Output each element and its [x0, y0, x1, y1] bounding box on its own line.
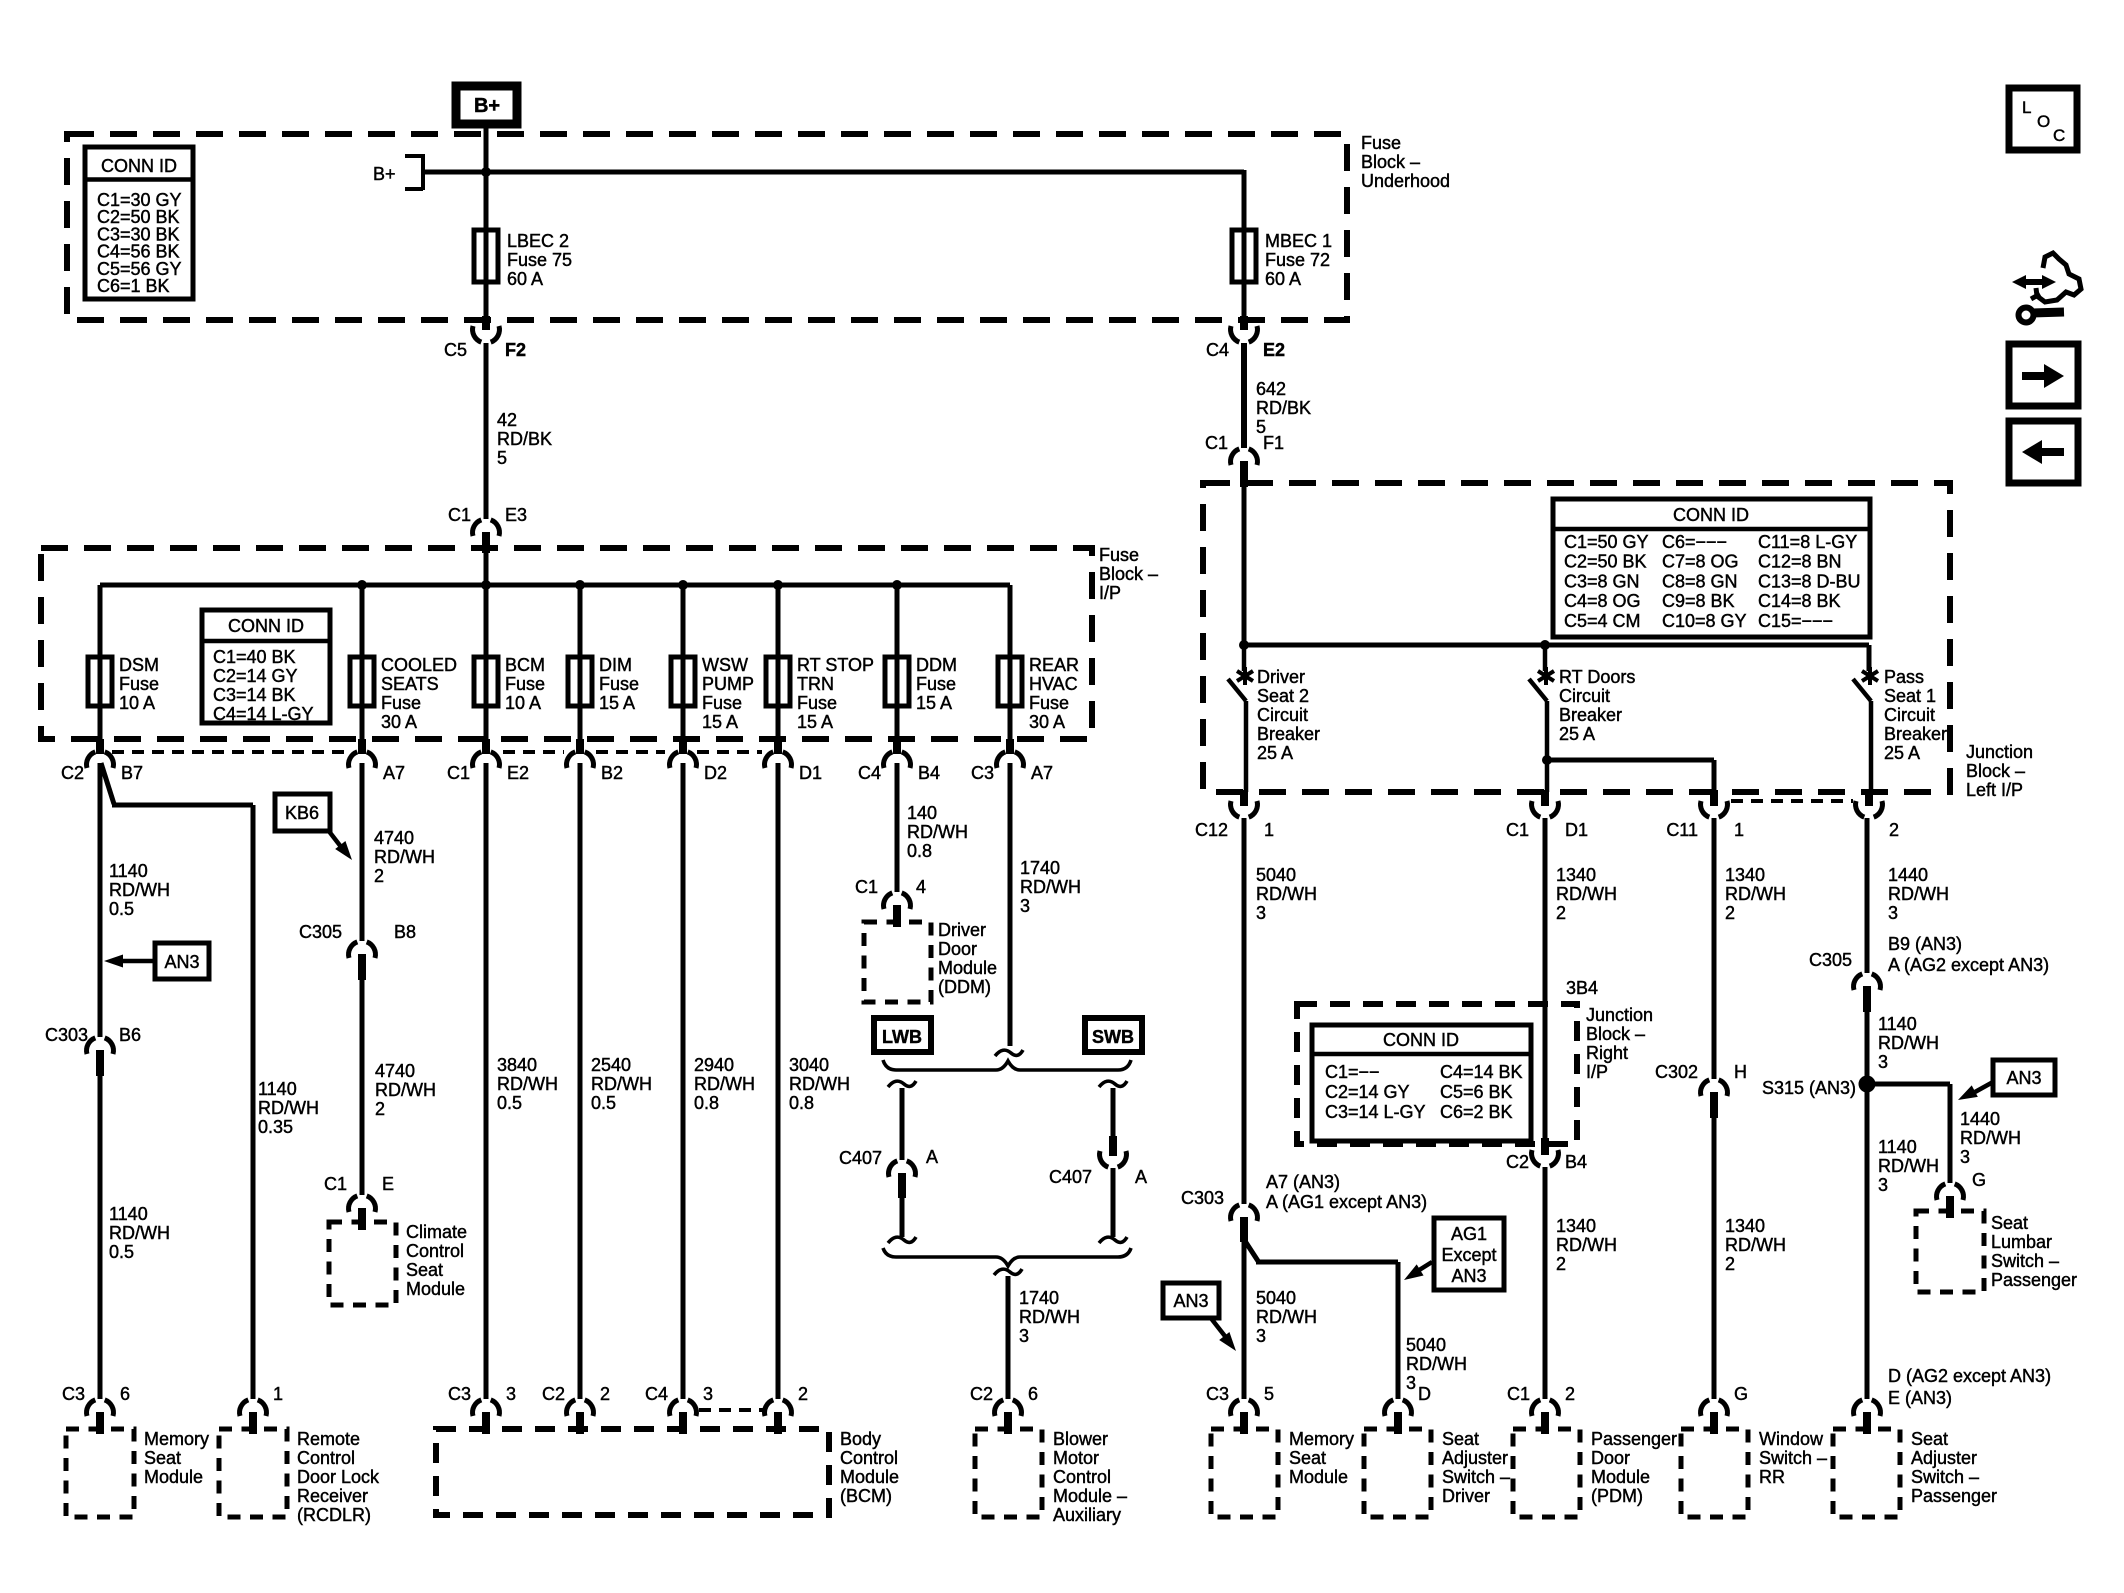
svg-text:D: D — [1418, 1384, 1431, 1404]
svg-text:RD/WH: RD/WH — [375, 1080, 436, 1100]
wire 5040 RD/WH 3 (C12 down) — [1244, 818, 1317, 1204]
circuit breaker Driver Seat 2 25 A — [1228, 645, 1320, 792]
connector C4 / E2 — [1206, 316, 1285, 360]
svg-text:MBEC 1: MBEC 1 — [1265, 231, 1332, 251]
svg-text:CONN ID: CONN ID — [101, 156, 177, 176]
svg-text:F1: F1 — [1263, 433, 1284, 453]
Seat Lumbar Switch - Passenger box — [1916, 1211, 2077, 1292]
wire fuse WSW PUMP to block edge — [681, 706, 686, 740]
svg-text:5040: 5040 — [1406, 1335, 1446, 1355]
fuse RT STOP TRN — [766, 655, 874, 732]
svg-text:Block –: Block – — [1586, 1024, 1645, 1044]
svg-text:Seat: Seat — [1442, 1429, 1479, 1449]
svg-text:D1: D1 — [799, 763, 822, 783]
label 3B4 — [1566, 978, 1598, 998]
wire 2540 RD/WH to BCM — [580, 763, 652, 1399]
svg-text:C303: C303 — [45, 1025, 88, 1045]
node AN3 reference (near C303) — [1163, 1283, 1236, 1351]
svg-text:C2: C2 — [1506, 1152, 1529, 1172]
next-page arrow box — [2009, 344, 2078, 406]
svg-text:3: 3 — [1256, 903, 1266, 923]
svg-text:Adjuster: Adjuster — [1911, 1448, 1977, 1468]
svg-text:1140: 1140 — [109, 1204, 148, 1224]
connector C303 / A7-A (right) — [1181, 1172, 1427, 1242]
svg-text:Door: Door — [938, 939, 977, 959]
component location icon (arrow, outline, wrench) — [2012, 253, 2081, 323]
svg-text:RD/WH: RD/WH — [1256, 1307, 1317, 1327]
CONN ID table (Fuse Block - I/P) — [202, 610, 330, 724]
fuse MBEC 1 Fuse 72 60 A — [1232, 228, 1332, 289]
connector G (Seat Lumbar Switch) — [1937, 1170, 1986, 1218]
splice S315 (AN3) — [1762, 1076, 1876, 1099]
wire 1740 RD/WH 3 (REAR HVAC down) — [1010, 763, 1081, 1046]
wire 1340 RD/WH 2 (C302 to Window Switch RR) — [1714, 1117, 1786, 1399]
svg-text:Seat: Seat — [406, 1260, 443, 1280]
connector C2 / B4 (JB Right exit) — [1506, 1138, 1587, 1172]
svg-text:Circuit: Circuit — [1884, 705, 1935, 725]
svg-text:RD/BK: RD/BK — [1256, 398, 1311, 418]
svg-text:C3: C3 — [62, 1384, 85, 1404]
svg-text:4740: 4740 — [375, 1061, 415, 1081]
svg-text:3040: 3040 — [789, 1055, 829, 1075]
fuse BCM — [474, 655, 545, 713]
previous-page arrow box — [2009, 421, 2078, 483]
svg-text:C4: C4 — [858, 763, 881, 783]
wire 1340 RD/WH 2 (to PDM) — [1545, 1167, 1617, 1399]
connector C3 / 6 (Memory Seat Module) — [62, 1384, 130, 1434]
svg-text:3: 3 — [1406, 1373, 1416, 1393]
svg-text:C5=6 BK: C5=6 BK — [1440, 1082, 1513, 1102]
svg-text:Module: Module — [406, 1279, 465, 1299]
Junction Block - Right I/P dashed box — [1297, 1004, 1577, 1144]
CONN ID table (Junction Block - Right I/P) — [1312, 1025, 1531, 1141]
svg-text:C4=14 BK: C4=14 BK — [1440, 1062, 1523, 1082]
svg-text:1340: 1340 — [1556, 865, 1596, 885]
svg-text:B+: B+ — [474, 95, 500, 117]
svg-text:2540: 2540 — [591, 1055, 631, 1075]
LOC navigation box — [2009, 88, 2077, 150]
svg-text:1340: 1340 — [1725, 1216, 1765, 1236]
wire branch to Seat Adjuster Switch - Driver — [1245, 1241, 1467, 1399]
wire 642 RD/BK 5 — [1244, 343, 1311, 448]
svg-text:RD/WH: RD/WH — [258, 1098, 319, 1118]
svg-text:10 A: 10 A — [119, 693, 155, 713]
svg-text:0.5: 0.5 — [591, 1093, 616, 1113]
svg-text:C2=14 GY: C2=14 GY — [1325, 1082, 1410, 1102]
connector C3 / 5 (Memory Seat Module (right)) — [1206, 1384, 1274, 1434]
svg-text:RD/WH: RD/WH — [1725, 884, 1786, 904]
Junction Block - Left I/P dashed box — [1203, 483, 1950, 792]
svg-text:Fuse: Fuse — [797, 693, 837, 713]
svg-text:15 A: 15 A — [916, 693, 952, 713]
svg-text:RD/WH: RD/WH — [1406, 1354, 1467, 1374]
svg-text:REAR: REAR — [1029, 655, 1079, 675]
wire bus tap to fuse REAR HVAC — [1008, 585, 1013, 657]
svg-text:C5=4 CM: C5=4 CM — [1564, 611, 1641, 631]
svg-text:C1: C1 — [1205, 433, 1228, 453]
fuse COOLED SEATS — [350, 655, 457, 732]
svg-text:1740: 1740 — [1019, 1288, 1059, 1308]
svg-text:PUMP: PUMP — [702, 674, 754, 694]
svg-text:5: 5 — [1264, 1384, 1274, 1404]
connector C2 / B7 (I/P block) — [61, 739, 143, 783]
svg-text:S315 (AN3): S315 (AN3) — [1762, 1078, 1856, 1098]
svg-text:Body: Body — [840, 1429, 881, 1449]
svg-text:25 A: 25 A — [1559, 724, 1595, 744]
svg-text:C1=−−: C1=−− — [1325, 1062, 1380, 1082]
node B+ tap bracket — [373, 154, 423, 190]
svg-text:O: O — [2037, 112, 2050, 131]
svg-text:B+: B+ — [373, 164, 396, 184]
svg-text:1140: 1140 — [258, 1079, 297, 1099]
wire branch 1440 RD/WH 3 to Seat Lumbar Switch — [1874, 1084, 2021, 1183]
brace top (options split) — [883, 1060, 1131, 1070]
svg-text:C3=14 BK: C3=14 BK — [213, 685, 296, 705]
wire dashed connector line (C11 to 2) — [1731, 799, 1853, 803]
fuse DDM — [885, 655, 957, 713]
svg-text:CONN ID: CONN ID — [1383, 1030, 1459, 1050]
svg-text:D2: D2 — [704, 763, 727, 783]
svg-text:5040: 5040 — [1256, 865, 1296, 885]
svg-text:0.5: 0.5 — [497, 1093, 522, 1113]
svg-text:RD/WH: RD/WH — [497, 1074, 558, 1094]
connector 1 (Remote Control Door Lock Receiver) — [240, 1384, 283, 1434]
svg-text:2: 2 — [1725, 903, 1735, 923]
svg-text:AN3: AN3 — [1173, 1291, 1208, 1311]
svg-text:1: 1 — [1264, 820, 1274, 840]
svg-text:RD/BK: RD/BK — [497, 429, 552, 449]
Seat Adjuster Switch - Passenger box — [1833, 1429, 1997, 1517]
connector C302 / H — [1655, 1062, 1747, 1118]
svg-text:C4: C4 — [645, 1384, 668, 1404]
svg-text:E2: E2 — [507, 763, 529, 783]
svg-text:Door: Door — [1591, 1448, 1630, 1468]
svg-text:Driver: Driver — [1257, 667, 1305, 687]
fuse REAR HVAC — [998, 655, 1079, 732]
circuit breaker Pass Seat 1 25 A — [1853, 645, 1947, 792]
svg-text:Passenger: Passenger — [1991, 1270, 2077, 1290]
svg-text:(BCM): (BCM) — [840, 1486, 892, 1506]
svg-text:C3: C3 — [448, 1384, 471, 1404]
wire 42 RD/BK 5 — [486, 343, 552, 519]
connector D2 (I/P block) — [670, 739, 727, 783]
wire feed into I/P block — [484, 553, 489, 585]
svg-text:Fuse: Fuse — [1361, 133, 1401, 153]
svg-text:1440: 1440 — [1888, 865, 1928, 885]
svg-text:4740: 4740 — [374, 828, 414, 848]
svg-text:C1: C1 — [855, 877, 878, 897]
svg-text:Module: Module — [840, 1467, 899, 1487]
Driver Door Module dashed box — [864, 920, 997, 1002]
svg-text:1340: 1340 — [1725, 865, 1765, 885]
svg-text:5040: 5040 — [1256, 1288, 1296, 1308]
Fuse Block - Underhood dashed box — [67, 134, 1347, 320]
svg-text:Junction: Junction — [1966, 742, 2033, 762]
svg-text:C1: C1 — [324, 1174, 347, 1194]
svg-text:RD/WH: RD/WH — [109, 880, 170, 900]
svg-text:3: 3 — [1256, 1326, 1266, 1346]
svg-text:Breaker: Breaker — [1559, 705, 1622, 725]
svg-text:C8=8 GN: C8=8 GN — [1662, 571, 1738, 591]
labels D/E terminals (Seat Adjuster Passenger) — [1888, 1366, 2051, 1408]
svg-text:0.8: 0.8 — [907, 841, 932, 861]
wire fuse BCM to block edge — [484, 706, 489, 740]
svg-text:Memory: Memory — [144, 1429, 209, 1449]
label SWB option box — [1085, 1018, 1142, 1052]
svg-text:1: 1 — [273, 1384, 283, 1404]
svg-text:C13=8 D-BU: C13=8 D-BU — [1758, 571, 1861, 591]
wire 4740 RD/WH 2 (COOLED SEATS to C305) — [362, 763, 435, 941]
svg-text:LBEC 2: LBEC 2 — [507, 231, 569, 251]
svg-text:42: 42 — [497, 410, 517, 430]
svg-text:Module: Module — [1591, 1467, 1650, 1487]
svg-text:C6=2 BK: C6=2 BK — [1440, 1102, 1513, 1122]
svg-text:Switch –: Switch – — [1442, 1467, 1510, 1487]
svg-text:1340: 1340 — [1556, 1216, 1596, 1236]
svg-text:Except: Except — [1441, 1245, 1496, 1265]
svg-text:C1=50 GY: C1=50 GY — [1564, 532, 1649, 552]
connector C407 / A (SWB) — [1049, 1136, 1147, 1243]
svg-text:Pass: Pass — [1884, 667, 1924, 687]
label Junction Block - Right I/P — [1586, 1005, 1653, 1082]
svg-text:RT Doors: RT Doors — [1559, 667, 1635, 687]
fuse DSM — [88, 655, 159, 713]
svg-text:RD/WH: RD/WH — [1256, 884, 1317, 904]
svg-text:Fuse: Fuse — [381, 693, 421, 713]
svg-text:C3: C3 — [971, 763, 994, 783]
svg-text:Remote: Remote — [297, 1429, 360, 1449]
wire 4740 RD/WH 2 (C305 to Climate Control Seat Module) — [362, 979, 436, 1195]
connector B2 (I/P block) — [567, 739, 623, 783]
svg-text:KB6: KB6 — [285, 803, 319, 823]
Body Control Module box — [436, 1384, 899, 1515]
svg-text:C2: C2 — [970, 1384, 993, 1404]
svg-text:Seat 1: Seat 1 — [1884, 686, 1936, 706]
svg-text:DSM: DSM — [119, 655, 159, 675]
wire fuse DIM to block edge — [578, 706, 583, 740]
svg-text:Seat: Seat — [1289, 1448, 1326, 1468]
connector C1 / 2 (Passenger Door Module) — [1507, 1384, 1575, 1434]
svg-text:Seat: Seat — [144, 1448, 181, 1468]
svg-text:C11: C11 — [1666, 820, 1698, 840]
svg-text:Fuse 75: Fuse 75 — [507, 250, 572, 270]
svg-text:Driver: Driver — [938, 920, 986, 940]
svg-text:LWB: LWB — [882, 1027, 922, 1047]
svg-text:C1: C1 — [447, 763, 470, 783]
svg-text:3: 3 — [506, 1384, 516, 1404]
svg-text:Right: Right — [1586, 1043, 1628, 1063]
svg-text:10 A: 10 A — [505, 693, 541, 713]
svg-text:RD/WH: RD/WH — [1556, 1235, 1617, 1255]
svg-text:C9=8 BK: C9=8 BK — [1662, 591, 1735, 611]
svg-text:Window: Window — [1759, 1429, 1824, 1449]
svg-text:D (AG2 except AN3): D (AG2 except AN3) — [1888, 1366, 2051, 1386]
svg-text:RT STOP: RT STOP — [797, 655, 874, 675]
svg-text:C4: C4 — [1206, 340, 1229, 360]
svg-text:Module: Module — [1289, 1467, 1348, 1487]
svg-text:C1: C1 — [1506, 820, 1529, 840]
svg-text:C12: C12 — [1195, 820, 1228, 840]
svg-text:B6: B6 — [119, 1025, 141, 1045]
svg-text:Module –: Module – — [1053, 1486, 1127, 1506]
svg-text:15 A: 15 A — [599, 693, 635, 713]
svg-text:AN3: AN3 — [164, 952, 199, 972]
svg-text:A7: A7 — [1031, 763, 1053, 783]
svg-text:RD/WH: RD/WH — [789, 1074, 850, 1094]
wire fuse REAR HVAC to block edge — [1008, 706, 1013, 740]
wire LWB option — [888, 1081, 916, 1160]
svg-text:C15=−−−: C15=−−− — [1758, 611, 1833, 631]
svg-text:C2=50 BK: C2=50 BK — [1564, 552, 1647, 572]
svg-text:CONN ID: CONN ID — [228, 616, 304, 636]
svg-text:30 A: 30 A — [381, 712, 417, 732]
svg-text:2: 2 — [1556, 903, 1566, 923]
svg-text:6: 6 — [1028, 1384, 1038, 1404]
wire 1140 RD/WH 0.5 (DSM to C303) — [100, 763, 170, 1037]
svg-text:H: H — [1734, 1062, 1747, 1082]
svg-text:1140: 1140 — [1878, 1014, 1917, 1034]
svg-text:CONN ID: CONN ID — [1673, 505, 1749, 525]
svg-text:B7: B7 — [121, 763, 143, 783]
wire branch B7 to RCDLR — [101, 763, 253, 1399]
label LWB option box — [874, 1018, 931, 1052]
svg-text:WSW: WSW — [702, 655, 748, 675]
svg-text:C303: C303 — [1181, 1188, 1224, 1208]
wire 1440 RD/WH 3 (Pass Seat 1 down) — [1867, 818, 1949, 973]
svg-text:C302: C302 — [1655, 1062, 1698, 1082]
svg-text:25 A: 25 A — [1257, 743, 1293, 763]
svg-text:Junction: Junction — [1586, 1005, 1653, 1025]
svg-text:Control: Control — [1053, 1467, 1111, 1487]
svg-text:Circuit: Circuit — [1257, 705, 1308, 725]
svg-text:G: G — [1972, 1170, 1986, 1190]
svg-text:Fuse: Fuse — [119, 674, 159, 694]
wire 1340 RD/WH 2 (D1 down) — [1545, 818, 1617, 1140]
connector D1 (I/P block) — [765, 739, 822, 783]
svg-text:A7 (AN3): A7 (AN3) — [1266, 1172, 1340, 1192]
svg-text:RD/WH: RD/WH — [907, 822, 968, 842]
svg-text:0.5: 0.5 — [109, 899, 134, 919]
svg-text:Memory: Memory — [1289, 1429, 1354, 1449]
svg-text:SEATS: SEATS — [381, 674, 439, 694]
svg-text:3B4: 3B4 — [1566, 978, 1598, 998]
svg-text:Passenger: Passenger — [1911, 1486, 1997, 1506]
svg-text:Fuse: Fuse — [599, 674, 639, 694]
svg-text:AN3: AN3 — [2006, 1068, 2041, 1088]
svg-text:2940: 2940 — [694, 1055, 734, 1075]
svg-text:C1: C1 — [448, 505, 471, 525]
svg-text:1140: 1140 — [1878, 1137, 1917, 1157]
svg-text:4: 4 — [916, 877, 926, 897]
connector C12 / 1 (JB Left exit) — [1195, 790, 1274, 840]
svg-text:2: 2 — [1565, 1384, 1575, 1404]
svg-text:I/P: I/P — [1586, 1062, 1608, 1082]
svg-text:Fuse 72: Fuse 72 — [1265, 250, 1330, 270]
wire bus tap to fuse DSM — [98, 585, 103, 657]
svg-text:Underhood: Underhood — [1361, 171, 1450, 191]
svg-text:RD/WH: RD/WH — [1878, 1156, 1939, 1176]
wire end tail (above brace) — [995, 1050, 1023, 1056]
svg-text:BCM: BCM — [505, 655, 545, 675]
svg-text:Seat 2: Seat 2 — [1257, 686, 1309, 706]
svg-text:RD/WH: RD/WH — [1878, 1033, 1939, 1053]
svg-text:TRN: TRN — [797, 674, 834, 694]
svg-text:A (AG2 except AN3): A (AG2 except AN3) — [1888, 955, 2049, 975]
svg-text:C4=8 OG: C4=8 OG — [1564, 591, 1641, 611]
svg-text:Control: Control — [297, 1448, 355, 1468]
label KB6 with arrow — [275, 794, 352, 860]
connector C407 / A (LWB) — [839, 1147, 938, 1243]
svg-text:A7: A7 — [383, 763, 405, 783]
svg-text:Module: Module — [144, 1467, 203, 1487]
svg-text:Switch –: Switch – — [1991, 1251, 2059, 1271]
svg-text:Breaker: Breaker — [1257, 724, 1320, 744]
svg-text:(RCDLR): (RCDLR) — [297, 1505, 371, 1525]
svg-text:60 A: 60 A — [1265, 269, 1301, 289]
connector C1 / D1 (JB Left exit) — [1506, 790, 1588, 840]
svg-text:HVAC: HVAC — [1029, 674, 1078, 694]
svg-text:C14=8 BK: C14=8 BK — [1758, 591, 1841, 611]
wire bus tap to fuse BCM — [484, 585, 489, 657]
svg-text:Motor: Motor — [1053, 1448, 1099, 1468]
svg-text:Blower: Blower — [1053, 1429, 1108, 1449]
wire feed into junction block — [1242, 487, 1247, 645]
connector D (Seat Adjuster Switch - Driver) — [1385, 1384, 1431, 1434]
wire 1140 RD/WH 0.35 — [258, 1079, 319, 1137]
svg-text:642: 642 — [1256, 379, 1286, 399]
connector C303 / B6 — [45, 1025, 141, 1076]
wire dashed connector line (C4-3 to 2) — [699, 1408, 764, 1412]
svg-text:C: C — [2053, 126, 2065, 145]
svg-text:B9 (AN3): B9 (AN3) — [1888, 934, 1962, 954]
svg-text:AG1: AG1 — [1451, 1224, 1487, 1244]
svg-text:RD/WH: RD/WH — [374, 847, 435, 867]
Seat Adjuster Switch - Driver box — [1364, 1429, 1510, 1517]
wire 140 RD/WH 0.8 (DDM fuse to DDM) — [897, 763, 968, 892]
svg-text:G: G — [1734, 1384, 1748, 1404]
svg-text:RD/WH: RD/WH — [1020, 877, 1081, 897]
svg-text:3: 3 — [1960, 1147, 1970, 1167]
svg-text:30 A: 30 A — [1029, 712, 1065, 732]
svg-text:3840: 3840 — [497, 1055, 537, 1075]
svg-text:Control: Control — [840, 1448, 898, 1468]
junction dots on I/P bus — [357, 580, 902, 590]
svg-text:Control: Control — [406, 1241, 464, 1261]
svg-text:5: 5 — [497, 448, 507, 468]
junction dot B+ feed — [481, 167, 491, 177]
svg-text:Seat: Seat — [1911, 1429, 1948, 1449]
svg-text:Auxiliary: Auxiliary — [1053, 1505, 1121, 1525]
svg-text:Fuse: Fuse — [505, 674, 545, 694]
svg-text:Fuse: Fuse — [1099, 545, 1139, 565]
svg-text:C3=14 L-GY: C3=14 L-GY — [1325, 1102, 1426, 1122]
svg-text:Switch –: Switch – — [1759, 1448, 1827, 1468]
wire RT Doors to C11 — [1547, 760, 1714, 792]
wire B+ horizontal bus — [423, 170, 1244, 230]
svg-text:I/P: I/P — [1099, 583, 1121, 603]
wire junction block bus — [1243, 645, 1869, 671]
junction dots JB bus — [1239, 640, 1550, 650]
connector C4 / B4 (I/P block) — [858, 739, 940, 783]
svg-text:SWB: SWB — [1092, 1027, 1134, 1047]
connector A7 (I/P block) — [349, 739, 405, 783]
svg-text:Lumbar: Lumbar — [1991, 1232, 2052, 1252]
svg-text:C3: C3 — [1206, 1384, 1229, 1404]
brace bottom (options merge) — [883, 1248, 1131, 1266]
svg-text:C1: C1 — [1507, 1384, 1530, 1404]
svg-text:E (AN3): E (AN3) — [1888, 1388, 1952, 1408]
svg-text:RD/WH: RD/WH — [1960, 1128, 2021, 1148]
